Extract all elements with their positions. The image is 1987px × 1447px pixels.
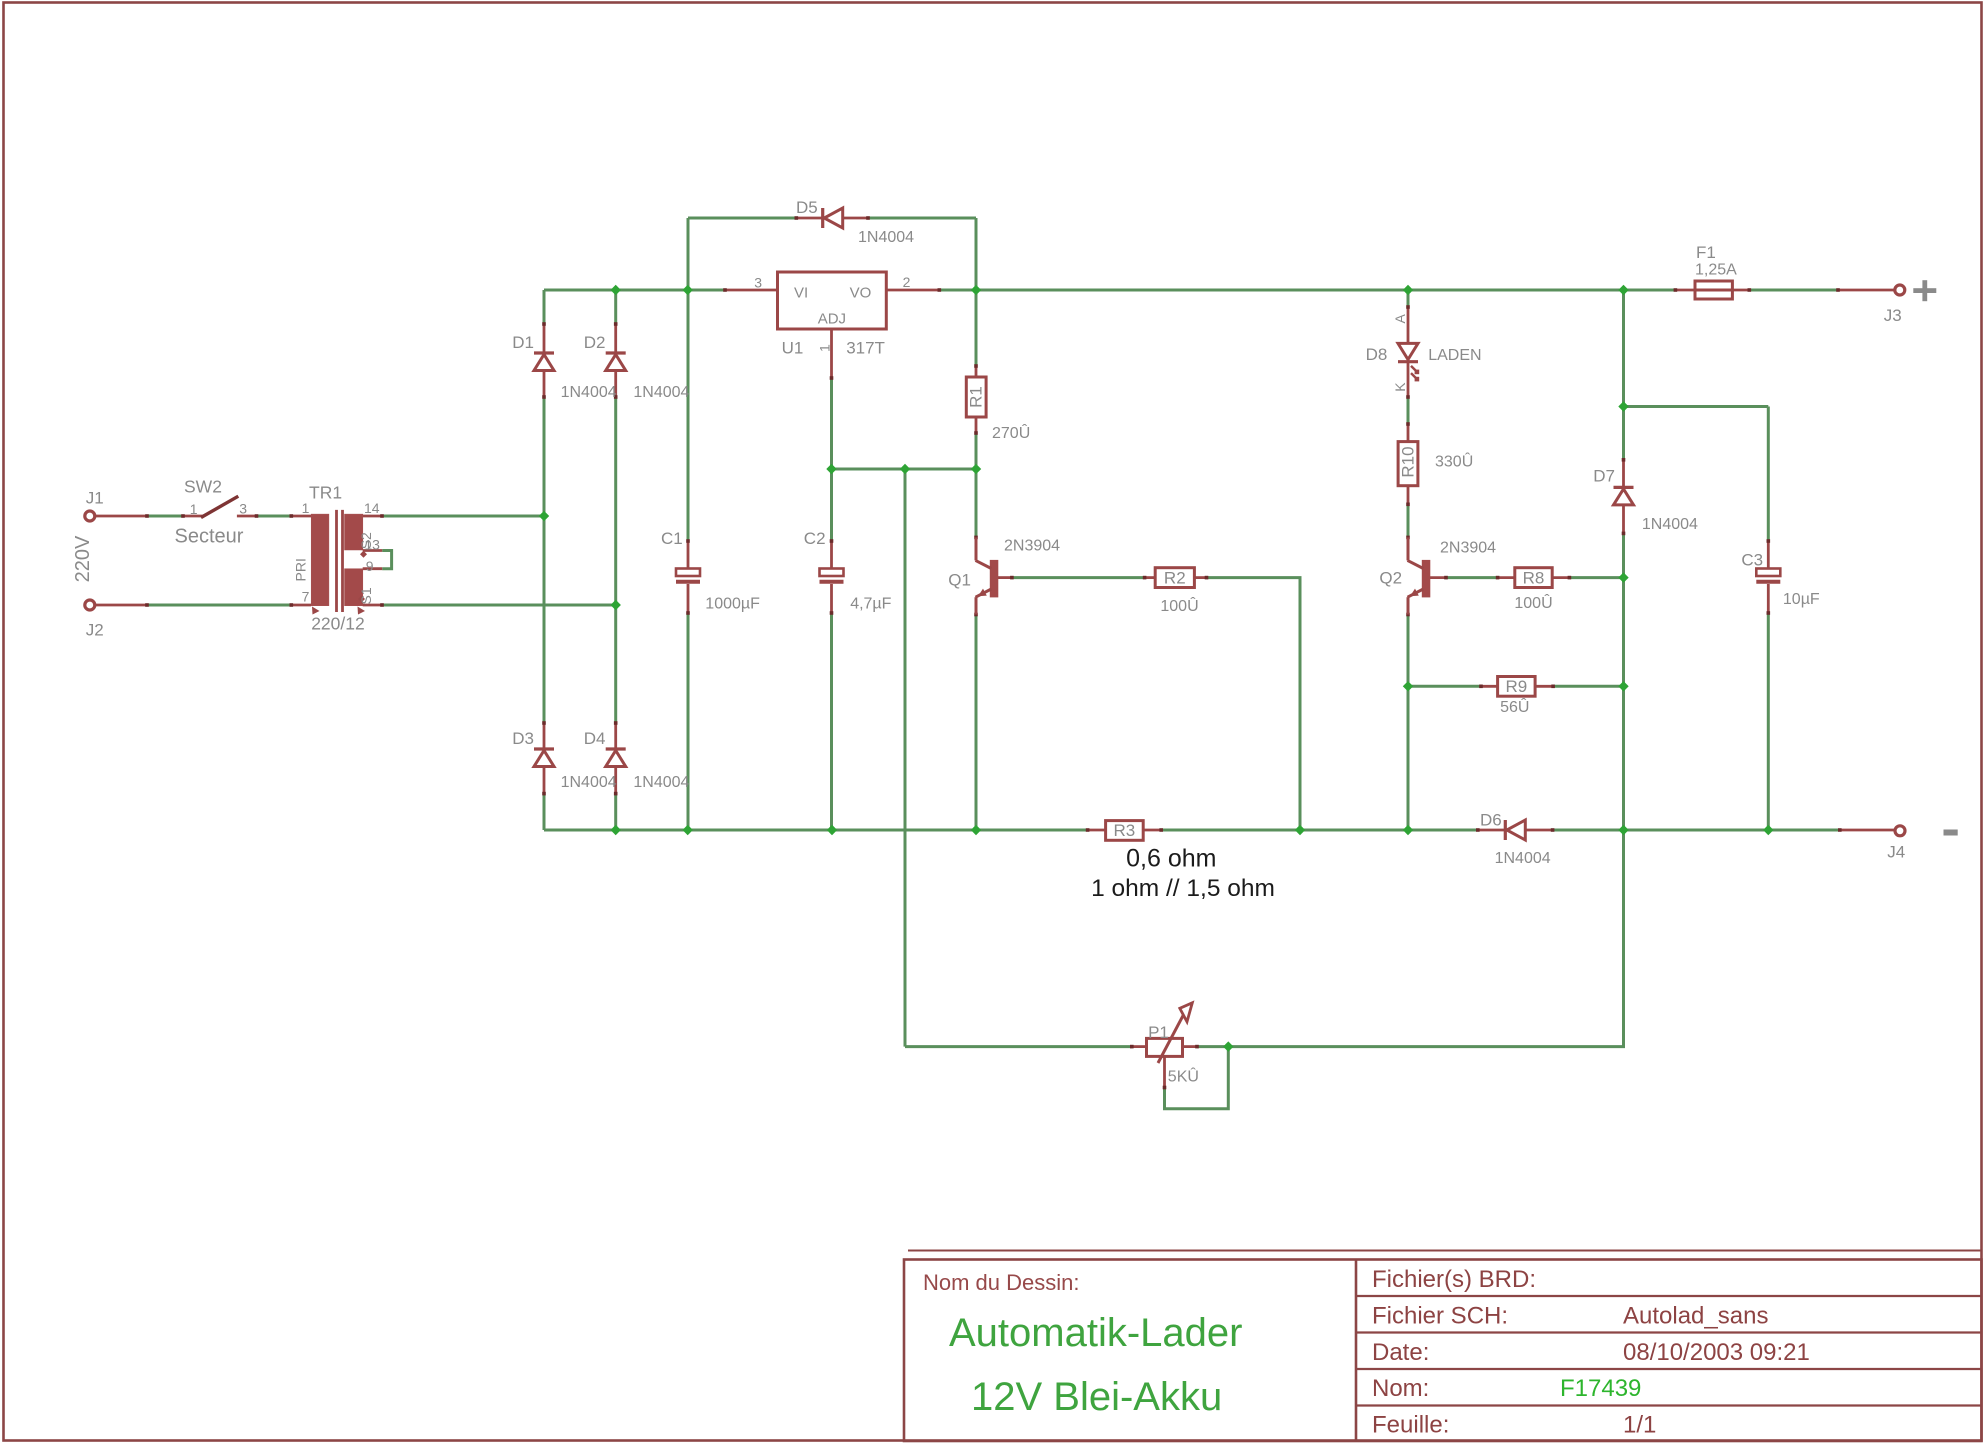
wire top rail right segment bbox=[939, 289, 1675, 292]
title row Fichier SCH: bbox=[1372, 1303, 1508, 1330]
diode D5 bbox=[823, 208, 843, 228]
wire D5 branch top left bbox=[688, 217, 796, 220]
svg-text:PRI: PRI bbox=[292, 558, 308, 581]
svg-text:D3: D3 bbox=[512, 729, 534, 748]
label U1 name bbox=[782, 338, 804, 357]
svg-text:56Û: 56Û bbox=[1500, 697, 1529, 716]
svg-text:9: 9 bbox=[366, 558, 374, 574]
pin R2 right bbox=[1194, 576, 1206, 579]
wire R10 to Q2 bbox=[1407, 504, 1410, 537]
label U1 value bbox=[846, 338, 885, 357]
junction node 9 at 544,516 bbox=[539, 511, 549, 521]
label U1 pin 3 bbox=[754, 275, 762, 291]
svg-text:10µF: 10µF bbox=[1783, 591, 1820, 608]
label 220V bbox=[72, 535, 94, 582]
svg-text:Nom du Dessin:: Nom du Dessin: bbox=[923, 1270, 1080, 1295]
junction node 15 at 615.7,830 bbox=[611, 825, 621, 835]
title row Fichier(s) BRD: bbox=[1372, 1266, 1536, 1293]
label U1 ADJ bbox=[818, 311, 846, 328]
pin P1 wiper bbox=[1163, 1056, 1166, 1087]
pin C3 minus bbox=[1767, 584, 1770, 613]
junction node 4 at 1408,290 bbox=[1403, 285, 1413, 295]
label D6 name bbox=[1480, 811, 1502, 830]
svg-text:D2: D2 bbox=[584, 333, 606, 352]
svg-text:C1: C1 bbox=[661, 529, 683, 548]
wire J1 to SW2 bbox=[147, 515, 183, 518]
label R9 name bbox=[1506, 677, 1528, 696]
svg-text:F17439: F17439 bbox=[1560, 1375, 1641, 1402]
pin D6 cathode bbox=[1478, 829, 1506, 832]
title row Date: bbox=[1372, 1339, 1429, 1366]
label J4 name bbox=[1887, 843, 1905, 862]
svg-text:1N4004: 1N4004 bbox=[561, 774, 617, 791]
pin TR1-14 bbox=[363, 515, 382, 518]
label R2 value bbox=[1160, 596, 1198, 615]
label R8 value bbox=[1514, 593, 1552, 612]
label Q2 name bbox=[1379, 569, 1402, 588]
title value Autolad_sans bbox=[1623, 1303, 1768, 1330]
plus mark at J3 bbox=[1913, 280, 1936, 301]
minus mark at J4 bbox=[1944, 830, 1958, 836]
label J3 name bbox=[1884, 306, 1902, 325]
pin Q2 base stub bbox=[1429, 576, 1446, 579]
svg-text:D5: D5 bbox=[796, 198, 818, 217]
svg-text:08/10/2003 09:21: 08/10/2003 09:21 bbox=[1623, 1339, 1810, 1366]
junction node 3 at 976,290 bbox=[971, 285, 981, 295]
connector pin J1 circle bbox=[85, 511, 95, 521]
label R1 value bbox=[992, 423, 1030, 442]
svg-text:D7: D7 bbox=[1593, 467, 1615, 486]
svg-text:14: 14 bbox=[364, 500, 380, 516]
label J1 bbox=[86, 489, 104, 508]
title 12V Blei-Akku bbox=[971, 1375, 1222, 1419]
pin D5 anode bbox=[842, 217, 869, 220]
svg-text:C2: C2 bbox=[804, 529, 826, 548]
label U1 VI bbox=[794, 285, 808, 302]
diode D2 bbox=[606, 353, 626, 371]
label Q2 value bbox=[1440, 540, 1496, 557]
wire F1 to J3 bbox=[1749, 289, 1838, 292]
switch SW2 lever bbox=[201, 496, 238, 517]
diode D7 bbox=[1614, 487, 1634, 505]
pin J3 bbox=[1838, 289, 1895, 292]
title value 08/10/2003 09:21 bbox=[1623, 1339, 1810, 1366]
junction node 16 at 687.7,830 bbox=[683, 825, 693, 835]
label D8 name bbox=[1366, 345, 1388, 364]
label D2 value bbox=[633, 384, 689, 401]
label C3 value bbox=[1783, 591, 1820, 608]
label C1 name bbox=[661, 529, 683, 548]
wire ADJ row to R1 node bbox=[832, 468, 977, 471]
svg-text:U1: U1 bbox=[782, 338, 804, 357]
svg-text:S2: S2 bbox=[358, 532, 374, 549]
wire top rail left segment bbox=[544, 289, 725, 292]
pin D3 cathode bbox=[543, 723, 546, 749]
pin D8 cathode bbox=[1407, 363, 1410, 397]
svg-text:R10: R10 bbox=[1399, 446, 1418, 477]
svg-text:3: 3 bbox=[239, 501, 247, 517]
LED D8 bbox=[1398, 343, 1419, 381]
label C1 value bbox=[705, 595, 760, 612]
wire C3 column upper bbox=[1767, 407, 1770, 542]
wire C1 column lower bbox=[687, 613, 690, 830]
label U1 pin 1 rotated bbox=[817, 344, 833, 352]
svg-text:P1: P1 bbox=[1148, 1023, 1169, 1042]
label TR1 pin 1 bbox=[302, 500, 310, 516]
capacitor C3 bbox=[1756, 569, 1780, 582]
wire D1-D3 column middle bbox=[543, 397, 546, 723]
svg-text:D1: D1 bbox=[512, 333, 534, 352]
pin R9 left bbox=[1481, 685, 1498, 688]
title row Feuille: bbox=[1372, 1412, 1449, 1439]
svg-text:1,25A: 1,25A bbox=[1695, 262, 1737, 279]
wire D4 column bottom bbox=[614, 794, 617, 830]
pin D4 anode bbox=[614, 767, 617, 794]
label C2 name bbox=[804, 529, 826, 548]
pin U1 VO bbox=[886, 289, 939, 292]
svg-text:Nom:: Nom: bbox=[1372, 1375, 1429, 1402]
wire Q2 base to R8 bbox=[1446, 576, 1498, 579]
svg-text:1N4004: 1N4004 bbox=[561, 384, 617, 401]
svg-text:D8: D8 bbox=[1366, 345, 1388, 364]
junction node 21 at 1623.5,830 bbox=[1618, 825, 1628, 835]
junction node 7 at 905,469 bbox=[900, 464, 910, 474]
svg-text:Secteur: Secteur bbox=[175, 526, 244, 548]
svg-text:1000µF: 1000µF bbox=[705, 595, 760, 612]
resistor R9 box bbox=[1498, 677, 1536, 697]
wire C2 column lower bbox=[830, 613, 833, 830]
svg-text:7: 7 bbox=[302, 589, 310, 605]
wire TR1 tap 13-9 loop bbox=[382, 551, 391, 569]
wire C3 column lower bbox=[1767, 613, 1770, 830]
svg-text:100Û: 100Û bbox=[1514, 593, 1552, 612]
pin R10 bottom bbox=[1407, 482, 1410, 504]
pin C2 plus bbox=[830, 541, 833, 569]
pin R1 bottom bbox=[975, 417, 978, 433]
title value 1/1 bbox=[1623, 1412, 1656, 1439]
connector pin J4 circle bbox=[1895, 826, 1905, 836]
junction node 14 at 1623.5,686.3 bbox=[1618, 681, 1628, 691]
label R3 value line 2 bbox=[1091, 875, 1275, 902]
label R3 value line 1 bbox=[1126, 845, 1216, 873]
svg-text:VO: VO bbox=[850, 285, 872, 302]
pin D8 anode bbox=[1407, 307, 1410, 343]
svg-text:317T: 317T bbox=[846, 338, 885, 357]
label TR1 value bbox=[311, 614, 365, 634]
title row Nom: bbox=[1372, 1375, 1429, 1402]
diode D4 bbox=[606, 749, 626, 767]
junction node 6 at 831.5,469 bbox=[826, 464, 836, 474]
capacitor C1 bbox=[676, 569, 700, 582]
label R1 name bbox=[967, 386, 986, 408]
wire R1 top bbox=[975, 290, 978, 366]
pin P1 right bbox=[1183, 1045, 1198, 1048]
label SW2 name bbox=[184, 477, 222, 497]
svg-text:Date:: Date: bbox=[1372, 1339, 1429, 1366]
pin C1 plus bbox=[687, 541, 690, 569]
label TR1 pin 7 bbox=[302, 589, 310, 605]
svg-text:Fichier SCH:: Fichier SCH: bbox=[1372, 1303, 1508, 1330]
title value F17439 bbox=[1560, 1375, 1641, 1402]
pin D2 cathode bbox=[614, 324, 617, 353]
svg-text:1: 1 bbox=[190, 501, 198, 517]
svg-text:2N3904: 2N3904 bbox=[1440, 540, 1496, 557]
wire R9 row left bbox=[1408, 685, 1481, 688]
svg-text:330Û: 330Û bbox=[1435, 452, 1473, 471]
svg-text:R2: R2 bbox=[1164, 568, 1186, 587]
pin P1 left bbox=[1132, 1045, 1147, 1048]
junction node 23 at 1228.3,1046.6 bbox=[1223, 1041, 1233, 1051]
pin R3 left bbox=[1088, 829, 1106, 832]
junction node 19 at 1300,830 bbox=[1295, 825, 1305, 835]
pin D5 cathode bbox=[796, 217, 822, 220]
pin TR1-7 bbox=[291, 604, 311, 607]
label TR1 S2 bbox=[358, 532, 374, 549]
junction node 2 at 687.7,290 bbox=[683, 285, 693, 295]
svg-text:5KÛ: 5KÛ bbox=[1168, 1067, 1199, 1086]
pin R8 left bbox=[1498, 576, 1515, 579]
svg-text:R9: R9 bbox=[1506, 677, 1528, 696]
wire Q1 base to R2 bbox=[1012, 576, 1145, 579]
wire TR1 S1 to D2-D4 node bbox=[382, 604, 616, 607]
svg-text:J4: J4 bbox=[1887, 843, 1905, 862]
svg-text:220V: 220V bbox=[72, 535, 94, 582]
svg-text:1 ohm // 1,5 ohm: 1 ohm // 1,5 ohm bbox=[1091, 875, 1275, 902]
label D5 name bbox=[796, 198, 818, 217]
wire D3 column bottom bbox=[543, 794, 546, 830]
wire Q2 emitter down bbox=[1407, 615, 1410, 831]
wire R2 to corner bbox=[1207, 578, 1301, 830]
pin U1 VI bbox=[725, 289, 778, 292]
label U1 VO bbox=[850, 285, 872, 302]
svg-text:12V Blei-Akku: 12V Blei-Akku bbox=[971, 1375, 1222, 1419]
svg-text:3: 3 bbox=[754, 275, 762, 291]
wire bottom rail left bbox=[544, 829, 1088, 832]
svg-text:ADJ: ADJ bbox=[818, 311, 846, 328]
label D5 value bbox=[858, 229, 914, 246]
svg-text:R3: R3 bbox=[1114, 821, 1136, 840]
svg-text:S1: S1 bbox=[358, 587, 374, 604]
pin D4 cathode bbox=[614, 723, 617, 749]
wire D5 branch right vertical bbox=[975, 218, 978, 290]
svg-text:VI: VI bbox=[794, 285, 808, 302]
wire R1 bottom bbox=[975, 433, 978, 469]
pin F1 right bbox=[1732, 289, 1749, 292]
connector pin J3 circle bbox=[1895, 285, 1905, 295]
wire D2 column top bbox=[614, 290, 617, 324]
diode D1 bbox=[534, 353, 554, 371]
svg-text:1N4004: 1N4004 bbox=[858, 229, 914, 246]
wire D8 top bbox=[1407, 290, 1410, 307]
label F1 value bbox=[1695, 262, 1737, 279]
label Q1 name bbox=[948, 571, 971, 590]
svg-text:4,7µF: 4,7µF bbox=[850, 595, 891, 612]
svg-text:Q1: Q1 bbox=[948, 571, 971, 590]
svg-text:C3: C3 bbox=[1741, 551, 1763, 570]
diode D3 bbox=[534, 749, 554, 767]
label D1 value bbox=[561, 384, 617, 401]
pin D3 anode bbox=[543, 767, 546, 794]
junction node 1 at 615.7,290 bbox=[611, 285, 621, 295]
title Automatik-Lader bbox=[949, 1311, 1242, 1355]
label D8 pin K rotated bbox=[1392, 382, 1408, 392]
pin D7 anode bbox=[1622, 460, 1625, 488]
svg-text:J3: J3 bbox=[1884, 306, 1902, 325]
wire R9 row right bbox=[1553, 685, 1623, 688]
wire node row to P1 column bbox=[904, 469, 907, 1047]
label D6 value bbox=[1495, 850, 1551, 867]
label SW2 pin 3 bbox=[239, 501, 247, 517]
pin D1 cathode bbox=[543, 324, 546, 353]
svg-text:1: 1 bbox=[817, 344, 833, 352]
label D4 value bbox=[633, 774, 689, 791]
pin C3 plus bbox=[1767, 541, 1770, 569]
label U1 pin 2 bbox=[903, 274, 911, 290]
pin U1 ADJ bbox=[830, 329, 833, 378]
wire bottom rail right bbox=[1553, 829, 1840, 832]
svg-text:Autolad_sans: Autolad_sans bbox=[1623, 1303, 1768, 1330]
svg-text:270Û: 270Û bbox=[992, 423, 1030, 442]
pin J1 bbox=[95, 515, 147, 518]
label C3 name bbox=[1741, 551, 1763, 570]
wire P1 wiper loop bbox=[1165, 1047, 1229, 1109]
pin SW2-1 bbox=[183, 515, 203, 518]
wire J2 to TR1 pin7 bbox=[147, 604, 291, 607]
fuse F1 box bbox=[1695, 281, 1732, 299]
svg-text:Feuille:: Feuille: bbox=[1372, 1412, 1449, 1439]
pin R3 right bbox=[1143, 829, 1161, 832]
pin TR1-9 bbox=[363, 567, 383, 570]
label R10 value bbox=[1435, 452, 1473, 471]
capacitor C2 bbox=[820, 569, 844, 582]
label Q1 value bbox=[1004, 538, 1060, 555]
wire R8 to D7 column bbox=[1569, 576, 1623, 579]
svg-text:K: K bbox=[1392, 382, 1408, 392]
label TR1 name bbox=[309, 483, 342, 503]
pin TR1-1 bbox=[291, 515, 311, 518]
pin Q1 base stub bbox=[997, 576, 1012, 579]
wire C2 column upper bbox=[830, 469, 833, 541]
label R10 name bbox=[1399, 446, 1418, 477]
svg-text:R8: R8 bbox=[1523, 568, 1545, 587]
pin SW2-3 bbox=[237, 515, 257, 518]
svg-text:Q2: Q2 bbox=[1379, 569, 1402, 588]
wire D5 branch top right bbox=[868, 217, 976, 220]
pin R1 top bbox=[975, 366, 978, 377]
svg-text:J2: J2 bbox=[86, 621, 104, 640]
label TR1 S1 bbox=[358, 587, 374, 604]
resistor R8 box bbox=[1515, 568, 1552, 588]
wire Q1 collector feed bbox=[975, 469, 978, 537]
pin D6 anode bbox=[1526, 829, 1553, 832]
wire TR1 pin14 to bridge node bbox=[382, 515, 544, 518]
svg-text:Fichier(s) BRD:: Fichier(s) BRD: bbox=[1372, 1266, 1536, 1293]
pin end dots bbox=[145, 216, 1841, 1089]
transistor Q2 bbox=[1408, 537, 1430, 614]
pin D2 anode bbox=[614, 371, 617, 398]
wire ADJ vertical bbox=[830, 378, 833, 469]
svg-text:1N4004: 1N4004 bbox=[633, 774, 689, 791]
pin D1 anode bbox=[543, 371, 546, 398]
label P1 name bbox=[1148, 1023, 1169, 1042]
svg-text:SW2: SW2 bbox=[184, 477, 222, 497]
junction node 11 at 1623.5,406.5 bbox=[1618, 401, 1628, 411]
label Secteur bbox=[175, 526, 244, 548]
pin J2 bbox=[95, 604, 147, 607]
svg-text:LADEN: LADEN bbox=[1428, 347, 1481, 364]
junction node 20 at 1408,830 bbox=[1403, 825, 1413, 835]
svg-text:1N4004: 1N4004 bbox=[1495, 850, 1551, 867]
label C2 value bbox=[850, 595, 891, 612]
pin R2 left bbox=[1145, 576, 1156, 579]
label R3 name bbox=[1114, 821, 1136, 840]
wire node row to C3 bbox=[1624, 405, 1769, 408]
wire P1 right to rail bbox=[1197, 830, 1624, 1047]
label F1 name bbox=[1696, 243, 1716, 262]
svg-text:R1: R1 bbox=[967, 386, 986, 408]
pin R8 right bbox=[1552, 576, 1569, 579]
resistor R10 box bbox=[1398, 442, 1418, 486]
wire D1 column top bbox=[543, 290, 546, 324]
svg-text:1N4004: 1N4004 bbox=[633, 384, 689, 401]
label TR1 PRI bbox=[292, 558, 308, 581]
label R2 name bbox=[1164, 568, 1186, 587]
label D2 name bbox=[584, 333, 606, 352]
pin TR1-S1 bbox=[363, 604, 382, 607]
label TR1 pin 13 bbox=[364, 536, 380, 552]
wire P1 column horizontal bbox=[905, 1045, 1132, 1048]
junction node 22 at 1768.3,830 bbox=[1763, 825, 1773, 835]
label J2 bbox=[86, 621, 104, 640]
svg-text:1: 1 bbox=[302, 500, 310, 516]
label R9 value bbox=[1500, 697, 1529, 716]
pin R9 right bbox=[1535, 685, 1553, 688]
junction node 10 at 615.7,605 bbox=[611, 600, 621, 610]
pin D7 cathode2 bbox=[1622, 505, 1625, 533]
pin TR1-13 bbox=[363, 549, 383, 552]
label D1 name bbox=[512, 333, 534, 352]
label D3 name bbox=[512, 729, 534, 748]
wire SW2 to TR1 pin1 bbox=[257, 515, 292, 518]
label D3 value bbox=[561, 774, 617, 791]
diode D6 bbox=[1505, 820, 1525, 840]
junction node 13 at 1408,686.3 bbox=[1403, 681, 1413, 691]
wire D7 column bottom bbox=[1622, 533, 1625, 830]
wire D5 branch left vertical bbox=[687, 218, 690, 290]
svg-text:1N4004: 1N4004 bbox=[1642, 516, 1698, 533]
wire D8 to R10 bbox=[1407, 397, 1410, 424]
svg-text:2: 2 bbox=[903, 274, 911, 290]
pin J4 bbox=[1840, 829, 1895, 832]
svg-text:100Û: 100Û bbox=[1160, 596, 1198, 615]
svg-text:Automatik-Lader: Automatik-Lader bbox=[949, 1311, 1242, 1355]
wire bottom rail mid bbox=[1161, 829, 1478, 832]
fuse F1 internal wire bbox=[1695, 289, 1732, 292]
potentiometer P1 bbox=[1147, 1003, 1193, 1063]
label D8 pin A rotated bbox=[1392, 314, 1408, 324]
pin R10 top bbox=[1407, 424, 1410, 442]
junction node 12 at 1623.5,577.6 bbox=[1618, 572, 1628, 582]
junction node 18 at 976,830 bbox=[971, 825, 981, 835]
svg-text:F1: F1 bbox=[1696, 243, 1716, 262]
label D7 name bbox=[1593, 467, 1615, 486]
svg-text:D6: D6 bbox=[1480, 811, 1502, 830]
wire D7 column top bbox=[1622, 290, 1625, 460]
resistor R2 box bbox=[1155, 568, 1194, 588]
junction node 17 at 832,830 bbox=[827, 825, 837, 835]
label P1 value bbox=[1168, 1067, 1199, 1086]
title block frame bbox=[904, 1251, 1982, 1442]
